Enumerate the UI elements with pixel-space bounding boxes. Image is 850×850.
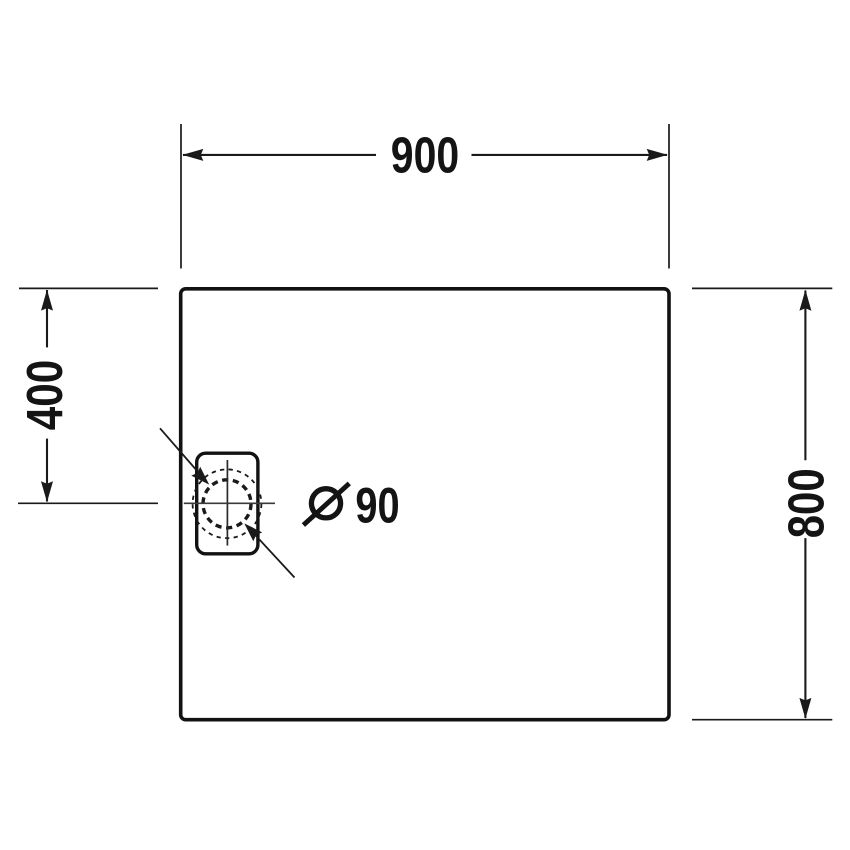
dim900 line right segment [472,154,668,156]
tray outline [181,289,669,720]
drain inner dashed circle [203,480,251,528]
svg-text:900: 900 [391,126,459,183]
drain centerline horizontal [184,502,275,504]
drain housing rounded rect [197,453,258,554]
dim400 line top segment [46,290,48,347]
drain centerline vertical [226,460,228,546]
dim800 extension line bottom [692,719,832,721]
dim400 arrowhead up [41,290,53,311]
dim800 line top segment [804,291,806,461]
dim900 extension line left [180,124,182,269]
leader line upper-left [160,428,201,475]
dim800 extension line top [692,287,832,289]
leader arrowhead lower-right [244,523,262,541]
dim400 arrowhead down [41,481,53,502]
dim800 line bottom segment [804,538,806,718]
dim900 arrowhead right [647,149,668,161]
dim900 extension line right [668,124,670,269]
dim400 extension line top [19,287,158,289]
diameter symbol slash [303,483,349,525]
dim800 arrowhead up [799,290,811,311]
dim400 extension line bottom [18,502,158,504]
drain outer dashed circle [193,469,262,538]
leader line lower-right [251,530,295,577]
svg-text:400: 400 [16,360,73,431]
dim400 line bottom segment [46,439,48,502]
leader arrowhead upper-left [191,467,209,485]
diameter symbol circle [311,489,340,518]
svg-text:90: 90 [355,478,399,534]
dim900 arrowhead left [182,149,203,161]
dim800 arrowhead down [799,698,811,719]
dim900 line left segment [183,154,376,156]
svg-text:800: 800 [778,468,835,538]
